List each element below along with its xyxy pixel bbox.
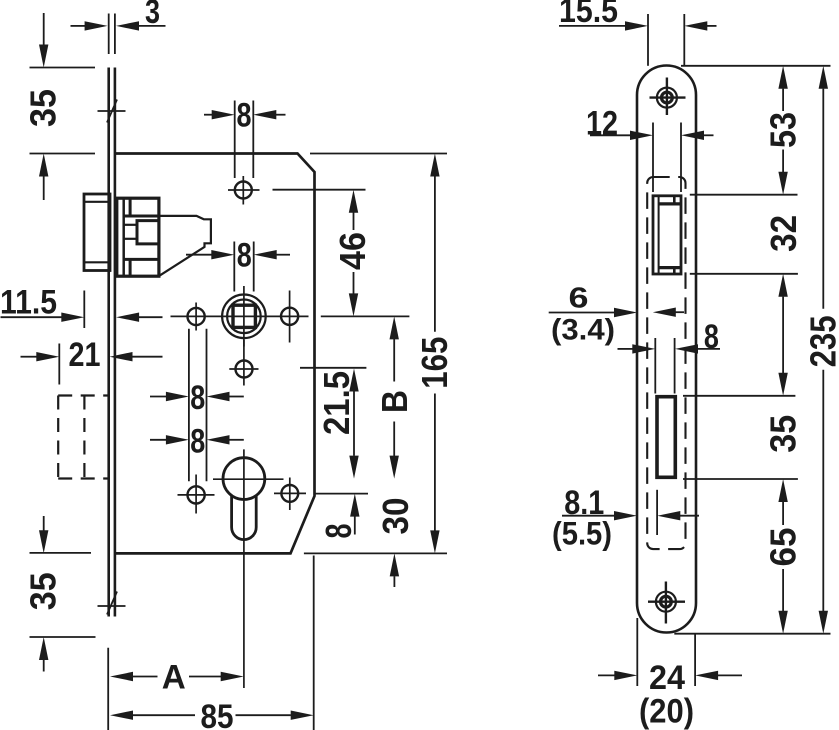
svg-text:8: 8	[318, 524, 359, 539]
svg-text:11.5: 11.5	[0, 284, 57, 322]
latch bolt head chamfer lines	[84, 201, 110, 203]
dim 46	[273, 189, 366, 191]
follower crosshair	[243, 286, 245, 347]
bottom screw hole outer	[656, 592, 676, 612]
bottom screw crosshair	[665, 582, 667, 624]
svg-text:30: 30	[375, 498, 416, 535]
dim 53	[778, 66, 787, 89]
follower center extension line	[321, 315, 410, 317]
follower inner circle	[227, 300, 261, 334]
deadbolt top extension line	[683, 395, 795, 397]
svg-text:8: 8	[190, 423, 205, 461]
below-hole crosshair	[243, 340, 245, 386]
top screw hole outer	[657, 88, 677, 108]
latch bottom block edge	[129, 259, 132, 276]
dim 35 top	[30, 67, 96, 69]
dim 8 euro to hole	[316, 493, 369, 495]
svg-text:(3.4): (3.4)	[551, 313, 615, 346]
latch bolt top bar	[659, 202, 681, 205]
hole left of follower	[188, 308, 205, 325]
dim 21.5	[300, 367, 366, 369]
svg-text:235: 235	[803, 315, 839, 367]
svg-text:B: B	[374, 390, 415, 413]
right hole crosshair	[289, 291, 291, 343]
top fixing hole	[235, 182, 252, 199]
deadbolt left edge extension	[656, 490, 658, 535]
hole right of follower	[281, 308, 298, 325]
dim A	[107, 648, 109, 730]
latch body lower line	[124, 258, 159, 261]
latch top extension line	[690, 194, 798, 196]
latch body upper line	[124, 215, 159, 218]
latch body middle block	[137, 221, 159, 244]
faceplate break mark top	[98, 110, 126, 112]
latch opening bottom notch	[673, 268, 676, 274]
svg-text:(20): (20)	[639, 692, 694, 730]
latch bolt bottom bar	[659, 266, 681, 269]
svg-text:165: 165	[414, 337, 455, 389]
svg-text:8: 8	[237, 237, 252, 275]
svg-text:32: 32	[763, 215, 804, 252]
deadbolt hidden outline (dashed)	[58, 394, 108, 396]
bottom screw hole inner	[661, 596, 672, 607]
dim 8 deadbolt width	[654, 338, 656, 394]
faceplate front outline	[637, 66, 696, 633]
follower outer circle	[222, 295, 266, 339]
dim 3 faceplate thickness	[108, 14, 110, 55]
faceplate break mark bottom	[98, 605, 126, 607]
latch bolt head (protruding)	[84, 194, 110, 271]
latch opening outer	[653, 196, 681, 274]
plate top extension line	[681, 65, 831, 67]
euro profile cylinder stem	[232, 495, 257, 540]
svg-text:53: 53	[763, 112, 804, 148]
dim 12	[652, 123, 654, 193]
svg-text:21.5: 21.5	[316, 371, 357, 435]
top screw hole inner	[662, 92, 673, 103]
euro profile cylinder hole circle	[223, 458, 265, 500]
svg-text:8: 8	[237, 96, 252, 134]
svg-text:85: 85	[201, 698, 234, 730]
dim 15.5	[647, 14, 649, 66]
svg-text:12: 12	[586, 105, 618, 143]
svg-text:8: 8	[704, 318, 719, 356]
plate bottom extension line	[674, 633, 830, 635]
svg-text:8: 8	[190, 379, 205, 417]
dim 21	[58, 344, 60, 385]
latch bottom extension line	[690, 273, 798, 275]
latch bolt body	[117, 198, 159, 276]
top screw crosshair	[666, 78, 668, 116]
latch opening top notch	[673, 196, 676, 204]
follower square spindle hole	[233, 305, 255, 327]
lower left hole crosshair	[195, 475, 197, 514]
dim 24 (20)	[636, 618, 638, 686]
dim 8 upper hole dia	[150, 396, 167, 398]
euro line extension right view	[683, 478, 798, 480]
latch body guide line	[122, 198, 125, 276]
euro cylinder horizontal center line	[213, 478, 284, 480]
left hole crosshair	[195, 303, 197, 331]
svg-text:65: 65	[763, 528, 804, 567]
lower right hole crosshair	[289, 478, 291, 511]
svg-text:24: 24	[649, 659, 685, 697]
dim 8 lower hole dia	[150, 439, 167, 441]
latch body notch lines	[124, 224, 137, 226]
deadbolt retracted face (dashed)	[83, 396, 85, 479]
svg-text:3: 3	[145, 0, 160, 31]
case bottom extension line	[304, 552, 447, 554]
svg-text:35: 35	[23, 572, 64, 610]
dim 65	[778, 479, 787, 502]
latch opening inner vertical	[658, 197, 660, 273]
dim 8 top hole	[234, 101, 236, 179]
dim 35 bottom	[30, 552, 92, 554]
svg-text:A: A	[162, 659, 186, 697]
svg-text:46: 46	[332, 232, 373, 270]
deadbolt opening	[657, 397, 675, 478]
dim 235	[819, 66, 828, 89]
unlabeled chain dim line	[778, 274, 787, 297]
faceplate strip inner edge (right line)	[114, 68, 117, 617]
dim 8 follower square	[233, 242, 235, 292]
latch top block edge	[129, 198, 132, 216]
dim 85	[110, 711, 133, 720]
lower left hole	[188, 486, 205, 503]
svg-text:35: 35	[763, 415, 804, 453]
latch bolt bevel tip	[159, 216, 211, 276]
hole below follower	[236, 361, 253, 378]
svg-text:6: 6	[569, 282, 589, 314]
lower right hole	[281, 485, 298, 502]
lock case outline	[115, 154, 315, 554]
dim 165	[310, 153, 447, 155]
svg-text:21: 21	[69, 336, 101, 374]
euro cylinder vertical center line	[243, 449, 245, 688]
dim B	[390, 316, 399, 339]
faceplate strip outer edge (left line)	[107, 68, 110, 617]
svg-text:35: 35	[23, 89, 64, 127]
dim 8 upper hole dia extension lines	[188, 329, 190, 482]
case right edge extension for 85	[313, 556, 315, 730]
svg-text:(5.5): (5.5)	[552, 516, 612, 552]
faceplate cutout hidden outline (dashed)	[647, 177, 685, 549]
top hole crosshair	[242, 176, 244, 205]
